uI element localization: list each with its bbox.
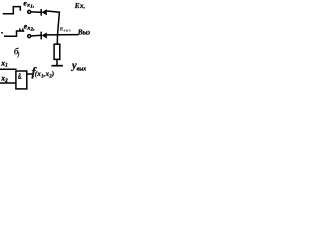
svg-text:&: & — [18, 71, 22, 81]
svg-text:Ех,: Ех, — [74, 2, 86, 10]
svg-text:Rвых: Rвых — [60, 27, 72, 33]
svg-text:Вых: Вых — [77, 27, 90, 36]
